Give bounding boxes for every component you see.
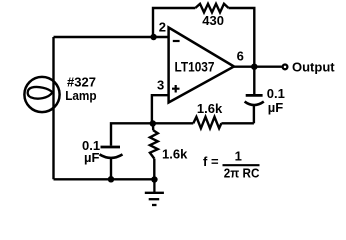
svg-text:µF: µF	[268, 100, 283, 115]
wire horizontal R2 right lead	[221, 122, 254, 124]
svg-text:2: 2	[159, 20, 166, 35]
node pin2 junction	[150, 34, 157, 41]
capacitor C2 0.1uF right	[245, 95, 264, 105]
node wien junction	[150, 120, 157, 127]
ground	[145, 180, 164, 206]
svg-text:LT1037: LT1037	[175, 59, 215, 74]
svg-text:430: 430	[202, 13, 224, 28]
label 0.1 left	[82, 138, 100, 153]
resistor R1 1.6k vertical	[150, 130, 158, 158]
op-amp U1 LT1037	[169, 28, 234, 103]
pin 2 label	[159, 20, 166, 35]
svg-text:1.6k: 1.6k	[162, 147, 188, 162]
wire feedback right down to output node	[229, 8, 255, 67]
lamp #327	[24, 77, 59, 112]
label LT1037	[175, 59, 215, 74]
node C1 rail junction	[108, 176, 115, 183]
wire top feedback (pin2 node up and across)	[153, 8, 195, 38]
svg-text:0.1: 0.1	[267, 86, 285, 101]
svg-text:3: 3	[157, 77, 164, 92]
label Output	[292, 59, 335, 74]
pin 3 label	[157, 77, 164, 92]
wire C1 bottom to rail	[110, 158, 112, 180]
op-amp minus sign	[173, 40, 180, 42]
resistor 430	[195, 4, 228, 13]
svg-text:1.6k: 1.6k	[197, 101, 223, 116]
svg-text:µF: µF	[84, 150, 99, 165]
wire C2 bottom to R2	[253, 105, 255, 124]
label #327	[67, 75, 96, 90]
svg-text:1: 1	[235, 149, 242, 164]
wire lamp vertical	[52, 37, 54, 179]
wire horizontal R2 left lead	[153, 122, 194, 124]
label 1.6k vertical	[162, 147, 188, 162]
wire pin2 (lamp node to op-amp inverting input)	[54, 36, 169, 38]
pin 6 label	[237, 49, 244, 64]
wire vertical R1 bottom lead	[153, 159, 155, 180]
op-amp plus sign	[172, 85, 180, 93]
label 0.1 right	[267, 86, 285, 101]
svg-text:Lamp: Lamp	[65, 88, 96, 103]
label 430	[202, 13, 224, 28]
wire bottom rail	[54, 178, 155, 180]
svg-text:6: 6	[237, 49, 244, 64]
formula fraction bar	[223, 164, 260, 166]
label Lamp	[65, 88, 96, 103]
svg-text:2π RC: 2π RC	[224, 166, 260, 181]
node output junction	[251, 63, 257, 70]
wire output	[234, 65, 282, 67]
capacitor C1 0.1uF left	[100, 147, 123, 158]
formula f = 1/(2 pi RC)	[203, 149, 260, 181]
wire node to C1	[111, 123, 153, 145]
output terminal	[283, 65, 288, 70]
svg-text:f =: f =	[203, 154, 219, 169]
svg-text:Output: Output	[292, 59, 335, 74]
wire pin3 to node	[152, 95, 169, 123]
wire vertical R1 top lead	[152, 123, 155, 130]
resistor R2 1.6k horizontal	[193, 117, 221, 128]
label uF left	[84, 150, 99, 165]
label 1.6k horizontal	[197, 101, 223, 116]
label uF right	[268, 100, 283, 115]
wire output node down to C2	[253, 67, 255, 94]
node ground junction	[151, 176, 158, 183]
